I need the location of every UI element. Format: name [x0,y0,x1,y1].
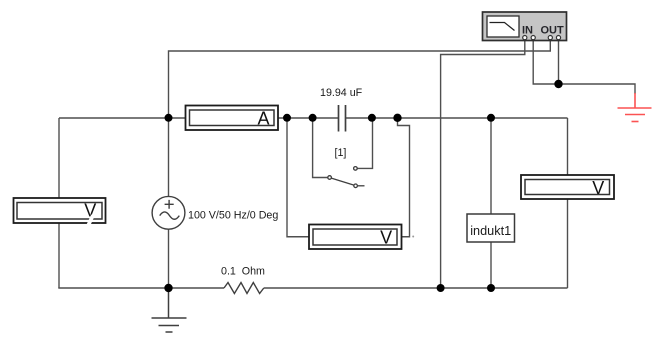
wire bode OUT+ to node A [169,40,551,119]
svg-text:[1]: [1] [335,147,347,159]
wire right vertical through V3 [567,118,569,288]
svg-text:19.94 uF: 19.94 uF [320,87,363,99]
node B junction [283,114,291,122]
resistor R1 0.1 Ohm [224,283,264,294]
bode plotter XBP1 [483,12,567,41]
node C junction [309,114,317,122]
wire bode OUT- to ground node [558,40,560,85]
ammeter U2 [186,106,279,131]
voltmeter U1 (left) [14,198,106,227]
node D junction [368,114,376,122]
wire node F to indukt1 top [490,118,492,214]
svg-text:indukt1: indukt1 [470,224,511,238]
voltmeter U4 (right) [521,175,614,199]
svg-text:0.1 Ohm: 0.1 Ohm [221,266,265,278]
wire bottom left segment [58,287,224,289]
wire left vertical branch [58,118,60,288]
ac source V1 [152,196,185,229]
wire capacitor to right corner [346,117,568,119]
switch S1 [328,167,365,188]
wire top horizontal left segment [59,117,185,119]
svg-text:V: V [380,227,392,247]
node I junction [437,284,445,292]
node J junction [487,284,495,292]
svg-text:V: V [592,178,604,198]
wire ground node to right ground [559,84,636,94]
subcircuit indukt1 [467,214,515,242]
wire node E to voltmeter V2 right [398,118,410,237]
svg-text:OUT: OUT [541,25,565,37]
wire node C to switch pivot [313,118,328,178]
capacitor C1 plates [339,105,346,132]
svg-text:100 V/50 Hz/0 Deg: 100 V/50 Hz/0 Deg [188,210,278,222]
wire source branch [168,118,170,288]
ground GND1 (bottom) [152,288,187,332]
svg-text:A: A [257,109,269,129]
stray dot right of U3 [412,236,414,238]
node A junction [165,114,173,122]
voltmeter U3 (middle) [309,225,402,250]
wire bottom right segment [264,287,568,289]
node F junction [487,114,495,122]
wire bode IN- to ground node [533,40,558,85]
node H junction (bottom ground tap) [164,284,172,292]
wire ammeter to capacitor [279,117,339,119]
wire bode IN+ to bottom net [441,40,525,289]
wire switch contact to node D [357,118,372,168]
wire indukt1 bottom to bottom net [490,242,492,288]
ground GND2 (red, top right) [618,93,652,122]
node G junction (bode ground) [554,80,562,88]
wire node B to voltmeter V2 left [287,118,310,237]
node E junction [393,114,401,122]
svg-text:IN: IN [522,25,533,37]
